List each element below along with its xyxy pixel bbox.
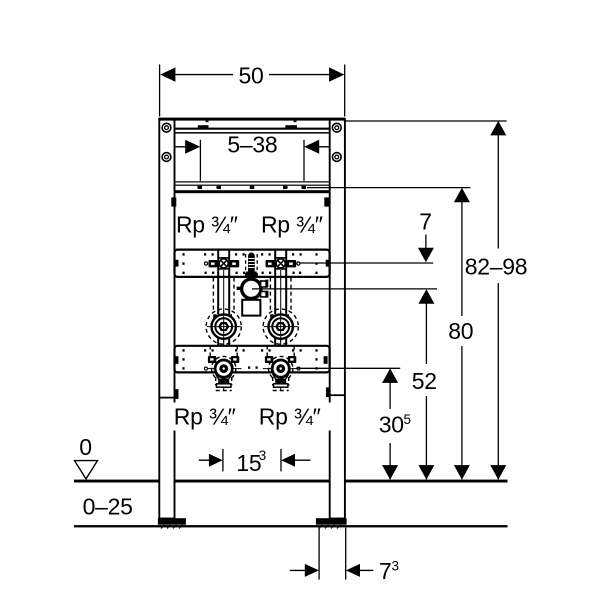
right foot hatching (319, 525, 341, 529)
leader line fittings (7) (300, 262, 433, 264)
slotted rail end hook left (171, 197, 176, 206)
upper mounting rail (175, 250, 330, 277)
pipe clamp body (242, 300, 260, 316)
svg-text:Rp ¾″: Rp ¾″ (261, 211, 323, 237)
floor line raw (74, 525, 508, 527)
svg-text:30: 30 (379, 412, 404, 438)
upper rail corner tab right (326, 260, 329, 267)
svg-text:7: 7 (419, 209, 432, 235)
frame left rail (159, 119, 174, 518)
lower rail corner tab left (175, 356, 179, 364)
dimension 82-98 (465, 121, 527, 480)
svg-text:3: 3 (259, 448, 267, 463)
dashed outline left assembly (206, 278, 241, 391)
dashed outline around pipe (246, 254, 258, 277)
dimension 5-38 (175, 131, 330, 181)
leader line bottom fittings (30-5) (296, 367, 400, 369)
water fitting bottom-right (263, 356, 300, 387)
svg-text:Rp ¾″: Rp ¾″ (259, 403, 321, 429)
frame right rail (330, 119, 345, 518)
screw top-right lower (332, 153, 341, 162)
dimension 52 (412, 289, 437, 479)
right rail bottom cap (326, 387, 345, 397)
screw top-left lower (162, 153, 171, 162)
leader line top (82-98) (345, 120, 506, 122)
dimension 7 (418, 209, 434, 263)
slotted rail end hook right (324, 197, 329, 206)
left rail bottom cap (159, 389, 178, 399)
left foot hatching (161, 525, 183, 529)
level symbol triangle (75, 461, 98, 479)
union nut left (207, 311, 241, 342)
leader line clamp (52) (252, 288, 437, 290)
label Rp 3/4 bottom right (256, 403, 338, 431)
svg-text:7: 7 (379, 558, 392, 584)
lower rail corner tab right (324, 356, 328, 364)
floor line finished (74, 480, 508, 483)
svg-text:5–38: 5–38 (227, 131, 277, 157)
pipe clamp ring (248, 276, 254, 280)
water fitting top-right (266, 258, 301, 269)
svg-text:Rp ¾″: Rp ¾″ (174, 403, 236, 429)
leader line slotted rail (80) (307, 187, 470, 189)
dashed outline right assembly (263, 278, 298, 391)
upper rail corner tab left (176, 260, 179, 267)
union nut right (264, 311, 298, 342)
screw top-right upper (332, 123, 341, 132)
water fitting top-left (204, 258, 239, 269)
right strap (275, 250, 286, 391)
left strap (218, 250, 229, 391)
svg-text:52: 52 (412, 368, 437, 394)
dimension 15-3 (199, 448, 311, 476)
screw top-left upper (162, 123, 171, 132)
svg-text:80: 80 (448, 318, 473, 344)
lower mounting rail (175, 346, 330, 373)
water fitting bottom-left (204, 356, 241, 387)
right foot (316, 518, 347, 525)
label Rp 3/4 bottom left (171, 403, 253, 431)
dimension 30-5 (379, 368, 411, 479)
top crossbar (158, 118, 345, 134)
left foot (158, 518, 186, 525)
svg-text:5: 5 (404, 412, 412, 427)
dimension 7-3 bottom (290, 528, 399, 584)
svg-text:3: 3 (392, 558, 400, 573)
svg-text:Rp ¾″: Rp ¾″ (176, 211, 238, 237)
dimension 50 (160, 63, 345, 117)
svg-text:15: 15 (236, 450, 261, 476)
slotted support rail (175, 181, 330, 193)
upper rail holes (182, 253, 317, 274)
pipe clamp lugs (261, 280, 269, 298)
dimension 80 (448, 188, 473, 480)
svg-text:82–98: 82–98 (465, 254, 527, 280)
svg-text:50: 50 (239, 63, 264, 89)
svg-text:0: 0 (79, 434, 92, 460)
lower rail holes (182, 349, 317, 369)
central threaded pipe (246, 253, 257, 277)
svg-text:0–25: 0–25 (83, 493, 133, 519)
